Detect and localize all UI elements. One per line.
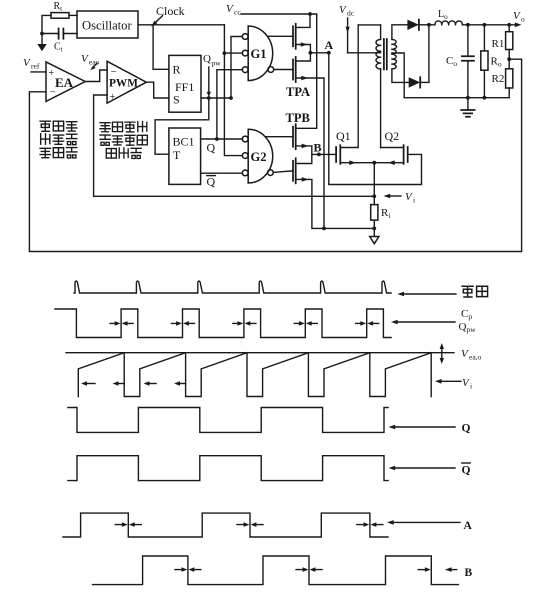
svg-text:V: V	[461, 348, 469, 360]
waveform row: A	[63, 513, 388, 537]
svg-text:cc: cc	[234, 8, 241, 17]
waveform row: Vea,o level line	[66, 352, 454, 354]
label Qbar (BC1 lower output)	[207, 175, 216, 189]
resistor Ri	[371, 205, 391, 221]
label arrow: Qbar row	[389, 466, 456, 471]
label Clock with arrow	[151, 4, 184, 27]
marker: Vea,o double arrow	[440, 343, 444, 364]
wire BC1 Qbar output to G2 bottom input	[201, 172, 242, 174]
svg-text:R1: R1	[492, 38, 505, 50]
svg-text:Q1: Q1	[336, 129, 351, 143]
svg-text:V: V	[339, 4, 347, 16]
svg-text:V: V	[462, 377, 470, 389]
svg-text:T: T	[173, 148, 181, 162]
op-amp/box U: Oscillator	[77, 11, 138, 38]
svg-text:TPA: TPA	[286, 85, 310, 99]
label arrow: clock row	[397, 292, 456, 297]
svg-text:Qpw: Qpw	[459, 321, 477, 334]
label Vi (waveform)	[462, 377, 472, 391]
wire G1 output to TPA upper gate	[268, 35, 294, 37]
svg-text:PWM: PWM	[109, 78, 138, 90]
wire BC1 Q output to G2 top input	[201, 137, 242, 141]
transistor TPB upper FET	[293, 124, 312, 163]
waveform row: Qbar	[68, 456, 388, 481]
svg-text:Q: Q	[203, 53, 211, 65]
resistor R2	[492, 69, 513, 98]
label Vcc	[226, 3, 241, 17]
capacitor Co	[446, 25, 474, 98]
svg-text:B: B	[465, 567, 473, 579]
wire Ri bottom / driver return rail	[372, 220, 376, 236]
label Vi with arrow	[384, 191, 416, 205]
label Cp Qpw	[459, 308, 477, 334]
transformer core	[384, 39, 387, 69]
label Q (BC1 upper output)	[207, 141, 216, 155]
svg-text:G1: G1	[251, 47, 267, 61]
resistor Ro	[481, 25, 502, 98]
svg-text:pw: pw	[212, 59, 222, 68]
label B	[465, 567, 473, 579]
svg-text:V: V	[81, 53, 89, 65]
label Veao with arrow	[81, 53, 100, 70]
resistor Rt	[51, 1, 69, 18]
svg-text:Ct: Ct	[54, 42, 63, 54]
svg-text:+: +	[110, 92, 116, 103]
svg-text:G2: G2	[251, 150, 267, 164]
svg-text:i: i	[470, 382, 472, 391]
label arrow: Vi row	[435, 379, 461, 384]
transistor Q2	[374, 129, 407, 165]
markers: A edge arrows	[115, 522, 383, 527]
flip-flop FF1	[169, 55, 201, 112]
wire FF1 Qpw up to G1 top input	[231, 37, 242, 99]
junction node Rt/Ct	[40, 32, 44, 36]
label Vea,o	[461, 348, 482, 362]
svg-text:S: S	[173, 93, 180, 107]
label Qbar	[462, 463, 471, 477]
transformer T1 secondary	[392, 39, 397, 69]
wire G2 inverted output to TPB lower gate	[273, 171, 293, 173]
label TPA	[286, 85, 310, 99]
node A	[309, 38, 334, 55]
svg-text:R2: R2	[492, 73, 505, 85]
markers: Vi delay arrows	[81, 381, 186, 386]
op-amp PWM comparator	[107, 61, 146, 103]
wire BC1 Q up to G1 bottom input	[217, 70, 242, 139]
wire Vi sense line to PWM + input	[94, 95, 375, 196]
svg-text:V: V	[513, 10, 521, 22]
svg-text:R: R	[173, 63, 181, 77]
svg-text:Ri: Ri	[381, 207, 390, 220]
diode D2	[409, 77, 429, 87]
waveform row: Cp/Qpw	[55, 309, 391, 338]
wire secondary center tap to output return	[392, 53, 404, 98]
svg-text:B: B	[314, 141, 322, 155]
svg-text:−: −	[111, 66, 117, 78]
capacitor Ct	[42, 29, 77, 54]
transformer T1 primary	[376, 25, 381, 148]
wire Qpw to BC1 T input	[155, 98, 209, 154]
wire secondary bottom to D2	[392, 69, 409, 82]
transistor TPB lower FET	[293, 158, 374, 228]
ground (output)	[461, 98, 474, 117]
svg-text:Q2: Q2	[385, 129, 400, 143]
label TPB	[286, 111, 310, 125]
svg-text:Lo: Lo	[438, 9, 448, 21]
node common source / Ri top (Vi)	[372, 161, 376, 205]
junction TPA source / ground rail	[322, 227, 326, 231]
svg-text:A: A	[464, 520, 473, 532]
wire Vdc to transformer center tap	[348, 52, 381, 54]
annotation text: peak current sense voltage comparator	[100, 122, 147, 159]
label Vref	[23, 57, 40, 71]
svg-text:ea,o: ea,o	[469, 353, 482, 362]
svg-text:+: +	[49, 68, 55, 79]
wire output top rail	[462, 23, 517, 27]
svg-text:Q: Q	[207, 141, 216, 155]
wire diode cathodes join	[427, 23, 431, 83]
waveform row: Q	[68, 408, 388, 433]
resistor R1	[492, 25, 513, 69]
wire Clock line	[138, 24, 224, 26]
wire Vcc rail to totem poles	[241, 12, 317, 128]
svg-text:Clock: Clock	[156, 4, 185, 18]
svg-text:V: V	[23, 57, 31, 69]
wire Clock vertical to G1/G2 middle inputs	[223, 25, 242, 156]
svg-text:BC1: BC1	[173, 135, 195, 149]
comparator block BC1	[169, 128, 201, 184]
logic gate G2	[242, 129, 273, 183]
label arrow: A row	[387, 520, 460, 525]
svg-text:i: i	[413, 196, 415, 205]
wire primary top to Q1 drain	[358, 24, 380, 26]
svg-text:EA: EA	[55, 75, 74, 90]
waveform row: Vi sawtooth	[78, 353, 431, 397]
markers: B edge arrows	[175, 567, 457, 572]
svg-text:Q: Q	[462, 465, 471, 477]
label Vdc with arrow	[339, 4, 355, 53]
svg-text:Q: Q	[462, 423, 471, 435]
label Qpw with down arrow	[203, 53, 221, 97]
wire node A to Q2 gate	[329, 53, 422, 185]
svg-text:dc: dc	[347, 9, 355, 18]
wire Vref to EA +	[31, 71, 46, 73]
op-amp EA (error amplifier)	[46, 62, 85, 102]
svg-text:A: A	[325, 38, 334, 52]
label Q	[462, 423, 471, 435]
svg-text:Rt: Rt	[54, 1, 63, 13]
wire FF1 output Qpw	[201, 96, 233, 100]
svg-text:o: o	[521, 15, 525, 24]
ground (oscillator RC)	[37, 44, 46, 51]
svg-text:TPB: TPB	[286, 111, 310, 125]
wire Clock to FF1 R input	[153, 25, 169, 70]
svg-text:Oscillator: Oscillator	[82, 19, 132, 33]
svg-text:Co: Co	[446, 55, 457, 68]
label A	[464, 520, 473, 532]
svg-text:V: V	[226, 3, 234, 15]
inductor Lo	[429, 9, 463, 25]
svg-text:Ro: Ro	[491, 56, 502, 69]
node B	[312, 141, 336, 157]
diode D1	[407, 20, 429, 30]
transistor Q1	[336, 25, 374, 165]
transistor TPA lower FET	[293, 53, 324, 229]
waveform row: clock (shizhong)	[74, 281, 391, 293]
node R1/R2 divider	[507, 57, 511, 61]
annotation text: voltage detection error amplifier	[40, 121, 77, 158]
wire EA output to PWM inverting input	[85, 70, 107, 82]
label arrow: Cp/Qpw row	[391, 320, 455, 325]
svg-text:ref: ref	[31, 62, 40, 71]
wire G2 output to TPB upper gate	[265, 136, 293, 138]
wire clock branch to G1 middle input	[224, 52, 242, 54]
wire feedback R1/R2 to EA inverting input	[29, 59, 521, 251]
ground (Ri) open triangle	[370, 237, 379, 244]
svg-text:Cp: Cp	[461, 308, 472, 321]
svg-text:V: V	[405, 191, 413, 203]
wire Rt right to oscillator	[69, 14, 77, 16]
svg-text:Q: Q	[207, 175, 216, 189]
wire G1 inverted output to TPA lower gate	[274, 69, 293, 71]
wire PWM output to FF1 S input	[146, 82, 169, 98]
logic gate G1	[242, 26, 273, 81]
wire output bottom rail	[404, 96, 509, 100]
wire secondary top to D1	[392, 25, 408, 40]
label Vo with arrow	[513, 10, 525, 27]
wire Rt left to ground column	[42, 15, 51, 44]
markers: Qpw edge arrows	[110, 321, 379, 326]
transistor TPA upper FET	[293, 14, 310, 53]
annotation text: clock label (CJK)	[462, 286, 487, 297]
label arrow: Q row	[389, 425, 456, 430]
waveform row: B	[93, 556, 459, 585]
